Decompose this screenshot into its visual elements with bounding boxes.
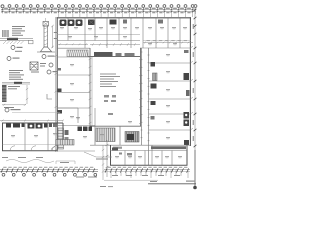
detail D: wall section ladder bar	[2, 85, 52, 108]
top dim text specks	[4, 8, 191, 14]
detail A bubble	[11, 46, 15, 50]
bottom-right block	[110, 145, 188, 166]
interior marks bottom-right rooms	[112, 148, 132, 156]
grid stems	[3, 7, 196, 17]
courtyard top dim chain	[90, 43, 140, 45]
wing door arcs	[10, 146, 55, 151]
right wing corridor walls	[142, 48, 149, 165]
left wing stair hatch	[58, 128, 64, 149]
leader rows with dark dash	[2, 82, 30, 84]
toilet cubicle fixtures top-left	[60, 20, 164, 27]
top dimension chain lines	[1, 9, 196, 11]
wing fixtures along top wall	[6, 124, 57, 129]
bottom-right dimension chain	[104, 169, 190, 171]
ground line with grid bubble	[148, 150, 196, 186]
courtyard wall tick chains	[89, 57, 142, 126]
bottom wing stair hatch 2	[125, 132, 139, 143]
detail A: eave section	[0, 26, 33, 52]
right wall fixtures	[184, 50, 190, 145]
left wall small dark marks	[58, 68, 63, 114]
main block outer walls	[57, 17, 192, 151]
left wing dividers	[57, 57, 95, 151]
top chain tick marks	[2, 9, 194, 13]
thin baseline under chain	[104, 179, 158, 181]
left wing bottom fixtures	[78, 127, 93, 132]
leader with text mid-bottom	[84, 152, 112, 157]
bottom wing walls	[90, 127, 190, 146]
courtyard walls	[88, 48, 141, 127]
detail bubble row y58	[7, 55, 46, 61]
junction rooms left wing bottom	[57, 108, 95, 127]
mid vertical dimension line	[106, 140, 109, 177]
room number labels	[60, 27, 187, 158]
entrance steps hatch	[67, 50, 88, 57]
detail B: column detail	[37, 18, 57, 52]
corridor wall tick chain	[57, 43, 88, 45]
corridor door marks	[141, 52, 150, 141]
top grid bubbles	[1, 5, 197, 8]
bottom wing stair hatch 1	[96, 128, 115, 142]
right wing room dividers	[149, 63, 190, 130]
right top dim chain	[143, 42, 193, 44]
right wing fixtures	[151, 62, 157, 120]
left notes text block	[9, 70, 24, 80]
courtyard notes text	[100, 74, 120, 116]
left vertical dim column bottom-right block	[102, 145, 104, 180]
wavy annotation above bottom chain	[6, 160, 75, 165]
bottom-left dimension chain	[0, 170, 98, 172]
detail C: crossed box	[30, 62, 53, 73]
courtyard entry dark block	[94, 52, 113, 57]
leader line under detail E	[12, 112, 60, 114]
junction door arc	[52, 145, 58, 151]
wing room labels	[11, 135, 15, 137]
right wall outside ticks	[191, 46, 194, 130]
left wall outside ticks	[55, 17, 58, 152]
right vertical dimension chain	[194, 8, 196, 150]
stairwell side marks	[65, 130, 69, 141]
wing interior dividers	[3, 123, 58, 151]
top wing interior walls	[57, 18, 191, 48]
dark room label band	[151, 146, 186, 149]
junction hatch block	[56, 140, 74, 146]
wing dimension line above	[0, 120, 64, 122]
detail E bubble	[5, 108, 9, 112]
right wing stair block	[153, 73, 158, 81]
bottom-left wing outer walls	[2, 123, 63, 151]
